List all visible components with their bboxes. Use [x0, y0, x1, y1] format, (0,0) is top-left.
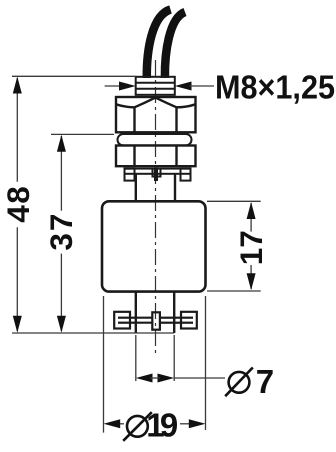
hex nut 2 [116, 146, 196, 167]
dimension 17 arrows [247, 202, 256, 219]
svg-text:19: 19 [146, 407, 178, 444]
flange center pin [154, 168, 158, 182]
upper stem [136, 174, 175, 201]
dimension 17 extension line bottom [207, 290, 261, 292]
dimension O7 arrows [136, 374, 153, 383]
dimension O7 extension line right [173, 335, 175, 381]
dimension bottom extension line [12, 332, 174, 334]
wire 1 [147, 10, 171, 79]
hex nut 1 [116, 97, 196, 132]
dimension 37 line [60, 136, 62, 331]
wire 2 [165, 12, 185, 78]
dimension 17 line [250, 203, 252, 289]
dimension 17 extension line top [207, 200, 261, 202]
dimension O7 leader [174, 377, 225, 379]
dimension O19 extension line right [205, 296, 207, 430]
dimension O19 left stub [117, 423, 124, 425]
dimension M8 leader left [105, 85, 122, 87]
dimension 48 arrows [13, 77, 22, 94]
dimension M8 leader right [189, 85, 214, 87]
dimension O7 center connector [150, 377, 160, 379]
sealing washer [118, 134, 192, 145]
svg-text:7: 7 [256, 363, 274, 400]
retaining flange [125, 169, 191, 181]
svg-text:17: 17 [233, 230, 269, 265]
dimension O19 extension line left [103, 296, 105, 433]
centerline [155, 60, 157, 355]
svg-text:M8×1,25: M8×1,25 [215, 69, 335, 106]
dimension 48 extension line top [12, 75, 136, 77]
dimension M8 right arrow [175, 82, 192, 91]
dimension O19 left arrow [104, 419, 121, 428]
dimension O19 symbol [123, 412, 152, 441]
dimension 37 arrows [57, 135, 66, 152]
dimension O7 symbol [225, 368, 253, 397]
dimension O7 extension line left [135, 335, 137, 381]
lower stem [136, 292, 174, 333]
thread section M8 [136, 77, 175, 95]
retaining clip left bracket [114, 312, 136, 329]
dimension 37 extension line [51, 133, 114, 135]
dimension O19 right arrow [189, 419, 206, 428]
dimension 48 line [16, 78, 18, 331]
retaining clip middle bar [136, 318, 174, 323]
svg-text:37: 37 [43, 214, 79, 251]
retaining clip right bracket [174, 312, 197, 329]
svg-text:48: 48 [0, 186, 36, 223]
dimension O19 right stub [180, 423, 190, 425]
float body [102, 201, 206, 291]
retaining clip hub [152, 312, 160, 329]
dimension M8 left arrow [119, 82, 136, 91]
